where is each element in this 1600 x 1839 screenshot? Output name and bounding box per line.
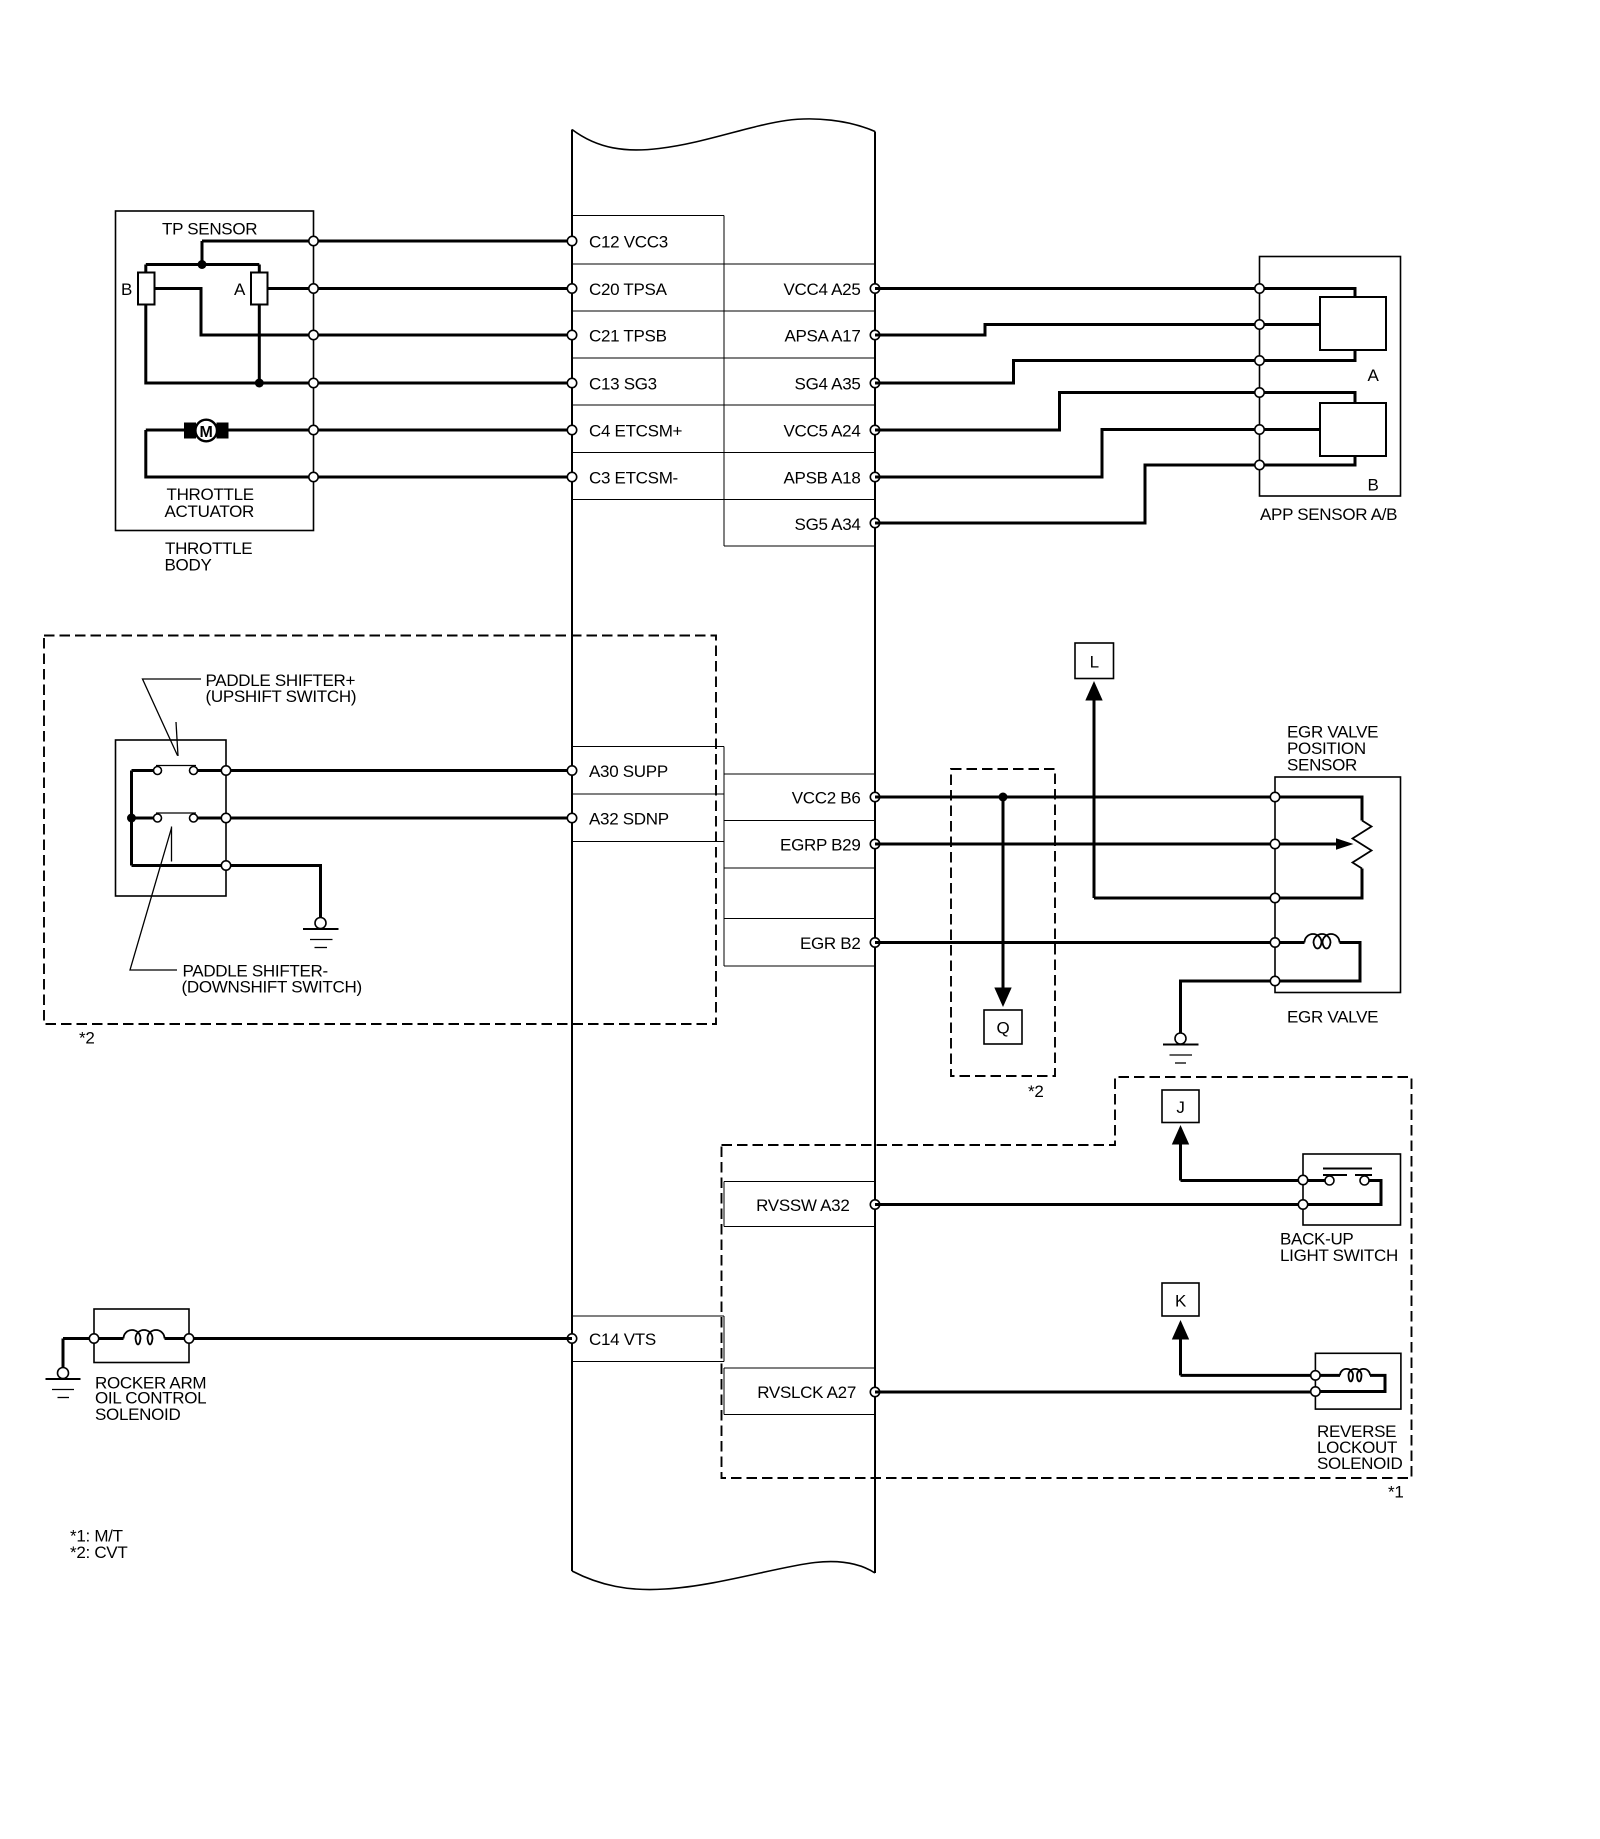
svg-text:C3 ETCSM-: C3 ETCSM- — [589, 469, 678, 488]
svg-text:VCC4 A25: VCC4 A25 — [784, 280, 861, 299]
svg-text:*1: *1 — [1388, 1483, 1403, 1502]
svg-text:A30 SUPP: A30 SUPP — [589, 762, 668, 781]
svg-text:A32 SDNP: A32 SDNP — [589, 810, 669, 829]
svg-text:K: K — [1175, 1292, 1187, 1311]
svg-text:B: B — [1367, 476, 1378, 495]
svg-text:C4 ETCSM+: C4 ETCSM+ — [589, 422, 683, 441]
svg-text:(UPSHIFT SWITCH): (UPSHIFT SWITCH) — [206, 687, 357, 706]
svg-text:VCC2 B6: VCC2 B6 — [792, 789, 861, 808]
svg-text:RVSSW A32: RVSSW A32 — [756, 1196, 849, 1215]
svg-text:SG5 A34: SG5 A34 — [795, 515, 861, 534]
svg-text:APP SENSOR A/B: APP SENSOR A/B — [1260, 505, 1397, 524]
svg-text:A: A — [1367, 366, 1379, 385]
svg-text:A: A — [234, 280, 246, 299]
svg-text:C14 VTS: C14 VTS — [589, 1330, 656, 1349]
svg-text:C20 TPSA: C20 TPSA — [589, 280, 668, 299]
svg-text:*2: *2 — [1028, 1082, 1043, 1101]
svg-text:EGR B2: EGR B2 — [800, 934, 861, 953]
svg-text:M: M — [200, 424, 213, 441]
svg-text:APSB A18: APSB A18 — [784, 469, 861, 488]
svg-text:SOLENOID: SOLENOID — [95, 1405, 180, 1424]
svg-text:*2: CVT: *2: CVT — [70, 1543, 127, 1562]
svg-text:APSA A17: APSA A17 — [784, 327, 860, 346]
svg-text:SG4 A35: SG4 A35 — [795, 375, 861, 394]
svg-text:ACTUATOR: ACTUATOR — [165, 502, 255, 521]
svg-text:VCC5 A24: VCC5 A24 — [784, 422, 861, 441]
svg-text:B: B — [121, 280, 132, 299]
svg-text:C21 TPSB: C21 TPSB — [589, 327, 667, 346]
svg-text:RVSLCK A27: RVSLCK A27 — [757, 1383, 856, 1402]
svg-text:EGRP B29: EGRP B29 — [780, 836, 860, 855]
svg-text:C12 VCC3: C12 VCC3 — [589, 233, 668, 252]
svg-text:L: L — [1090, 653, 1099, 672]
svg-text:TP SENSOR: TP SENSOR — [162, 220, 257, 239]
svg-text:EGR VALVE: EGR VALVE — [1287, 1008, 1378, 1027]
svg-text:J: J — [1176, 1098, 1184, 1117]
svg-text:SOLENOID: SOLENOID — [1317, 1454, 1402, 1473]
svg-text:BODY: BODY — [165, 556, 212, 575]
svg-text:C13 SG3: C13 SG3 — [589, 375, 657, 394]
svg-text:*2: *2 — [79, 1029, 94, 1048]
svg-text:LIGHT SWITCH: LIGHT SWITCH — [1280, 1246, 1398, 1265]
svg-text:SENSOR: SENSOR — [1287, 756, 1357, 775]
svg-text:Q: Q — [997, 1019, 1010, 1038]
svg-text:(DOWNSHIFT SWITCH): (DOWNSHIFT SWITCH) — [182, 978, 362, 997]
